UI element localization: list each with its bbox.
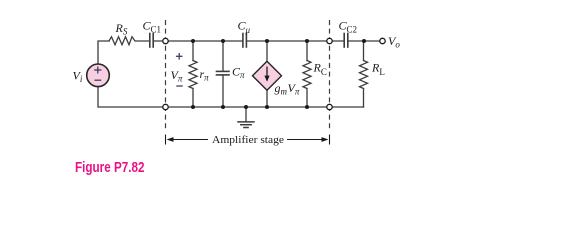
svg-text:Amplifier stage: Amplifier stage [212, 134, 284, 146]
svg-text:Figure P7.82: Figure P7.82 [75, 160, 145, 176]
